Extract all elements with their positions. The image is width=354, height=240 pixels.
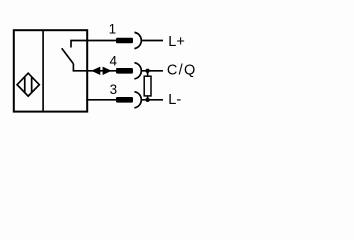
svg-text:L+: L+: [168, 34, 185, 50]
svg-text:3: 3: [110, 82, 118, 97]
svg-text:1: 1: [109, 22, 117, 37]
svg-text:C/Q: C/Q: [167, 62, 197, 78]
svg-text:4: 4: [110, 53, 118, 68]
svg-text:L-: L-: [168, 92, 181, 108]
